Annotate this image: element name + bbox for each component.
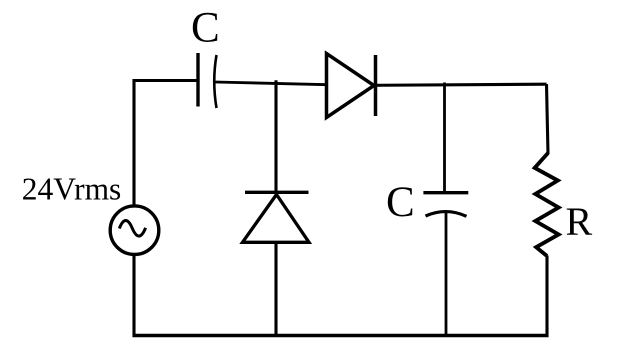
svg-text:R: R (566, 199, 593, 244)
svg-text:24Vrms: 24Vrms (22, 171, 122, 207)
svg-text:C: C (386, 179, 415, 226)
svg-text:C: C (191, 5, 220, 52)
